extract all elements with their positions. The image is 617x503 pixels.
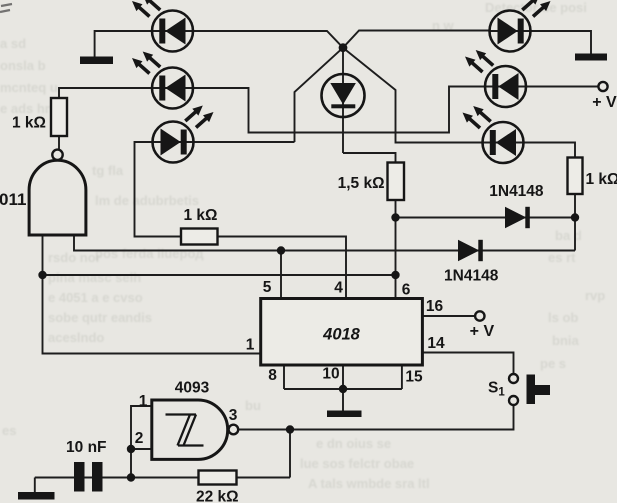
svg-text:14: 14	[427, 335, 445, 352]
svg-text:e 4051 a e cvso: e 4051 a e cvso	[48, 290, 143, 305]
wire LED5 right to +V terminal	[485, 86, 599, 88]
wire LED2 right to LED5 left	[152, 87, 527, 133]
svg-text:4: 4	[334, 280, 343, 297]
svg-text:8: 8	[268, 367, 277, 384]
wire LED1 right to node A	[152, 31, 344, 48]
svg-text:16: 16	[426, 298, 444, 315]
ground below U2	[327, 411, 362, 418]
wire R2 right to pin 4	[218, 237, 347, 299]
svg-text:011: 011	[0, 190, 26, 209]
node B junction	[391, 213, 399, 221]
LED LED4	[490, 0, 551, 52]
svg-text:1 kΩ: 1 kΩ	[184, 207, 218, 224]
svg-text:lm de adubrbetis: lm de adubrbetis	[95, 193, 199, 208]
wire LED3 right	[152, 141, 295, 143]
svg-text:5: 5	[263, 279, 272, 296]
wire RC bottom line left to ground	[35, 478, 199, 493]
svg-text:1: 1	[139, 393, 148, 410]
svg-text:es rt: es rt	[548, 250, 576, 265]
svg-text:1: 1	[246, 337, 255, 354]
wire R5 right to feedback node	[237, 477, 291, 479]
wire LED4 right to ground	[489, 31, 591, 54]
wire R1 bottom to U1 output bubble	[58, 136, 60, 150]
junction pin10 ground	[339, 385, 347, 393]
ground top left	[80, 57, 113, 65]
svg-text:pos ferda ilueрод: pos ferda ilueрод	[95, 246, 204, 261]
wire U1 input a line to pin 6 node	[43, 274, 396, 276]
wire R4 bottom to node C	[574, 194, 576, 218]
svg-text:lue sos felctr obae: lue sos felctr obae	[300, 456, 414, 471]
svg-text:onsla b: onsla b	[0, 58, 46, 73]
svg-text:ba d: ba d	[555, 228, 582, 243]
svg-text:2: 2	[135, 430, 144, 447]
LED LED1	[132, 0, 193, 52]
op-amp U3 NAND 4093	[152, 400, 238, 459]
svg-text:sobe qutr eandis: sobe qutr eandis	[48, 310, 152, 325]
wire node B to node C through D1	[396, 217, 576, 219]
wire pin 5 stub	[280, 251, 282, 299]
svg-text:4018: 4018	[322, 326, 361, 344]
junction RC line left	[127, 473, 135, 481]
ground top right	[575, 54, 607, 61]
junction feedback node	[286, 425, 294, 433]
wire D3 cathode to R3 top	[343, 153, 396, 163]
wire U1 input a to pin 1	[43, 235, 261, 354]
wire LED2 left to R1 top	[59, 88, 194, 98]
svg-text:ls ob: ls ob	[548, 310, 578, 325]
svg-text:e dn oius se: e dn oius se	[316, 436, 391, 451]
svg-text:+ V: + V	[470, 323, 495, 340]
wire U1 input b line through D2	[74, 235, 575, 251]
terminal +V right	[598, 82, 607, 91]
junction pin5 line	[277, 246, 285, 254]
resistor R2 1k	[181, 229, 218, 245]
switch S1	[509, 374, 550, 405]
resistor R5 22k	[199, 471, 237, 485]
svg-text:pe s: pe s	[540, 356, 566, 371]
svg-text:3: 3	[229, 407, 238, 424]
resistor R3 1.5k	[388, 163, 405, 201]
wire node A to D3 anode	[342, 48, 344, 153]
svg-text:1,5 kΩ: 1,5 kΩ	[338, 175, 385, 192]
wire R3 bottom to pin 6	[395, 200, 397, 299]
wire feedback node to RC line	[289, 430, 291, 478]
svg-text:aceslndo: aceslndo	[48, 330, 104, 345]
LED LED6	[463, 106, 524, 163]
junction pin6 line	[391, 271, 399, 279]
svg-text:1 kΩ: 1 kΩ	[586, 171, 617, 188]
capacitor C1 10nF	[74, 462, 103, 492]
resistor R1 1k	[51, 98, 67, 136]
wire S1 to U3 output line	[238, 405, 513, 430]
wire node A to LED4 left	[343, 31, 489, 48]
svg-text:22 kΩ: 22 kΩ	[196, 489, 239, 503]
svg-text:1 kΩ: 1 kΩ	[12, 115, 46, 132]
LED LED5	[465, 50, 526, 107]
wire node A slant down-left to LED3 net	[295, 48, 344, 142]
wire U3 inputs tie	[131, 406, 152, 478]
svg-text:rvp: rvp	[585, 288, 605, 303]
wire pin 16 to +V terminal	[422, 315, 475, 317]
svg-text:tg fla: tg fla	[92, 163, 124, 178]
wire LED3 left down to R2	[135, 142, 195, 237]
wire pins 8 10 15 to ground	[284, 365, 402, 411]
resistor R4 1k	[568, 158, 583, 195]
wire node C down to D2 line	[574, 218, 576, 251]
junction U3 input 2	[127, 445, 135, 453]
svg-text:bnia: bnia	[552, 333, 579, 348]
IC U2 4018	[261, 299, 423, 366]
wire node A slant down-right to LED6 left	[343, 48, 524, 143]
svg-text:mcnteq u: mcnteq u	[0, 80, 58, 95]
svg-text:a sd: a sd	[0, 36, 26, 51]
svg-text:pina masc selh: pina masc selh	[48, 270, 141, 285]
wire pin 14 to S1	[422, 353, 513, 375]
op-amp U1 NAND 4011	[29, 150, 86, 235]
svg-text:es: es	[2, 423, 16, 438]
svg-text:10 nF: 10 nF	[66, 439, 106, 456]
wire LED6 right to R4 top	[482, 143, 575, 158]
terminal +V pin16	[475, 311, 484, 320]
svg-text:10: 10	[322, 366, 339, 383]
node A junction	[339, 43, 348, 52]
LED LED3	[153, 106, 214, 163]
svg-text:6: 6	[402, 282, 411, 299]
svg-text:bu: bu	[245, 398, 261, 413]
wire LED1 left to ground	[95, 31, 194, 57]
svg-text:+ V: + V	[592, 94, 617, 111]
diode D1 1N4148	[505, 207, 530, 228]
ground bottom left	[18, 492, 55, 500]
diode D2 1N4148	[458, 240, 483, 261]
LED LED2	[132, 52, 193, 109]
svg-text:1N4148: 1N4148	[489, 183, 544, 200]
junction U1 input a	[38, 271, 46, 279]
svg-text:A tals wmbde sra ltl: A tals wmbde sra ltl	[308, 476, 430, 491]
photodiode D3	[322, 74, 365, 117]
svg-text:rsdo nor: rsdo nor	[48, 250, 101, 265]
svg-text:4093: 4093	[175, 380, 210, 397]
node C junction	[571, 213, 579, 221]
svg-text:1N4148: 1N4148	[444, 268, 499, 285]
svg-text:15: 15	[405, 369, 423, 386]
